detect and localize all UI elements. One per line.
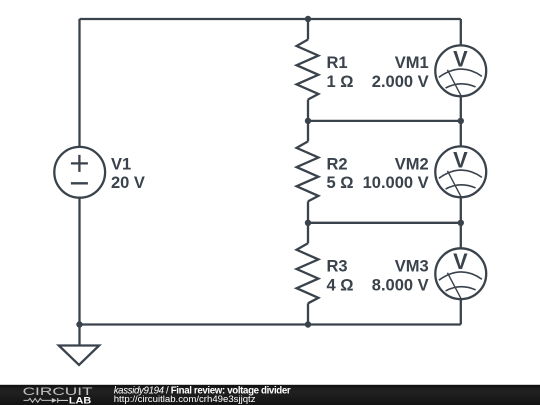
svg-text:2.000 V: 2.000 V	[372, 73, 429, 91]
ground	[78, 325, 80, 345]
svg-text:1 Ω: 1 Ω	[327, 73, 354, 91]
junction dot node C right	[458, 220, 464, 226]
svg-text:VM1: VM1	[395, 54, 429, 72]
junction dot ground rail left	[76, 321, 82, 327]
svg-text:V: V	[453, 46, 468, 71]
resistor R1	[297, 40, 319, 100]
wire VM2 bottom lead	[460, 197, 462, 248]
wire R2 bottom lead	[307, 201, 309, 222]
voltage source V1	[54, 147, 105, 198]
svg-text:5 Ω: 5 Ω	[327, 174, 354, 192]
voltmeter VM1	[435, 45, 486, 96]
svg-text:R1: R1	[327, 54, 348, 72]
junction dot node B left	[305, 118, 311, 124]
svg-text:R2: R2	[327, 155, 348, 173]
svg-text:20 V: 20 V	[111, 174, 145, 192]
CircuitLab logo resistor squiggle	[24, 398, 52, 402]
svg-text:4 Ω: 4 Ω	[327, 276, 354, 294]
junction dot node B right	[458, 118, 464, 124]
svg-text:V: V	[453, 147, 468, 172]
junction dot ground rail mid	[305, 321, 311, 327]
wire R3 bottom lead	[307, 303, 309, 324]
svg-text:VM2: VM2	[395, 155, 429, 173]
CircuitLab logo diode	[52, 398, 57, 403]
svg-text:http://circuitlab.com/crh49e3s: http://circuitlab.com/crh49e3sjjqtz	[114, 394, 256, 405]
svg-text:LAB: LAB	[69, 395, 92, 405]
wire VM1 top lead	[460, 19, 462, 46]
wire V1 top lead	[78, 19, 80, 147]
wire top net (V1+ to R1 to VM1)	[80, 18, 461, 20]
resistor R2	[297, 141, 319, 201]
wire R2 top lead	[307, 121, 309, 141]
wire bottom net (ground rail)	[80, 323, 461, 325]
svg-text:V: V	[453, 249, 468, 274]
junction dot node C left	[305, 220, 311, 226]
wire V1 bottom lead	[78, 198, 80, 325]
wire R1 bottom lead	[307, 100, 309, 121]
wire VM1 bottom lead	[460, 96, 462, 147]
wire VM3 bottom lead	[460, 299, 462, 324]
wire node between R2 and R3 to VM2/VM3	[308, 222, 461, 224]
wire R3 top lead	[307, 223, 309, 244]
voltmeter VM2	[435, 146, 486, 197]
svg-text:10.000 V: 10.000 V	[363, 174, 429, 192]
resistor R3	[297, 243, 319, 303]
junction dot node A (top)	[305, 16, 311, 22]
voltmeter VM3	[435, 248, 486, 299]
svg-text:8.000 V: 8.000 V	[372, 276, 429, 294]
footer bar	[0, 385, 540, 405]
wire R1 top lead	[307, 19, 309, 40]
svg-text:VM3: VM3	[395, 258, 429, 276]
wire node between R1 and R2 to VM1/VM2	[308, 120, 461, 122]
svg-text:R3: R3	[327, 258, 348, 276]
svg-text:V1: V1	[111, 155, 131, 173]
